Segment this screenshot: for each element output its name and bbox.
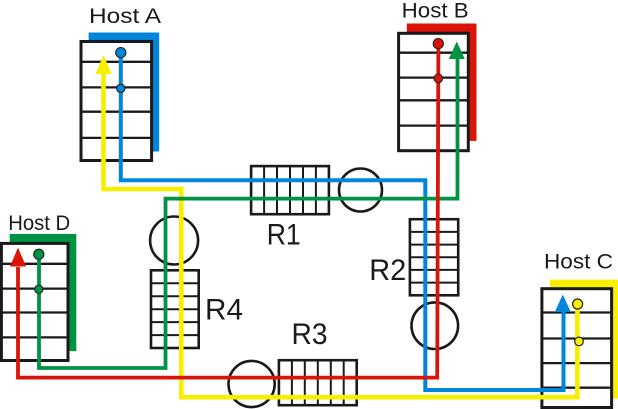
node dot blue source Host A [116,48,126,58]
host C shadow [550,280,618,399]
node dot red layer Host B [434,74,443,83]
svg-text:Host C: Host C [544,249,613,273]
host B box [399,33,469,150]
host C box [542,289,612,408]
router R2 ring [412,302,459,349]
svg-text:Host D: Host D [8,211,70,235]
svg-text:R3: R3 [292,318,328,351]
arrowhead blue at Host C [555,295,571,313]
node dot green layer Host D [35,285,43,293]
host D shadow [10,234,77,351]
host A shadow [89,33,160,152]
node dot yellow source Host C [573,299,583,309]
router R4 box [151,270,199,348]
wire blue path Host A to Host C [121,51,564,390]
arrowhead red at Host D [10,248,26,267]
router R2 box [410,219,458,295]
node dot red source Host B [433,39,443,49]
router R1 box [251,166,329,214]
host D box [1,243,68,360]
arrowhead green at Host B [449,42,465,60]
arrowhead yellow at Host A [95,55,111,74]
node dot yellow layer Host C [575,337,584,346]
host B shadow [407,24,477,141]
node dot green source Host D [34,249,44,259]
router R3 box [279,360,357,405]
wire green path Host D to Host B [39,58,458,368]
svg-text:R2: R2 [369,254,406,287]
host A box [81,42,152,161]
svg-text:R1: R1 [267,218,301,251]
router R1 ring [339,169,382,212]
router R4 ring [150,217,198,265]
svg-text:Host B: Host B [402,0,469,23]
router R3 ring [229,361,275,407]
svg-text:Host A: Host A [89,4,162,28]
wire yellow path Host C to Host A [104,73,578,397]
wire red path Host B to Host D [18,40,438,378]
svg-text:R4: R4 [205,294,243,327]
node dot blue layer Host A [117,84,125,92]
